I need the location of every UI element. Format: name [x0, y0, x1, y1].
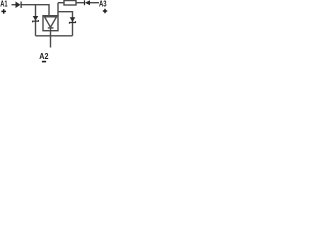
svg-text:A3: A3 — [99, 0, 107, 8]
svg-text:A1: A1 — [0, 0, 7, 9]
svg-text:A2: A2 — [39, 51, 48, 61]
